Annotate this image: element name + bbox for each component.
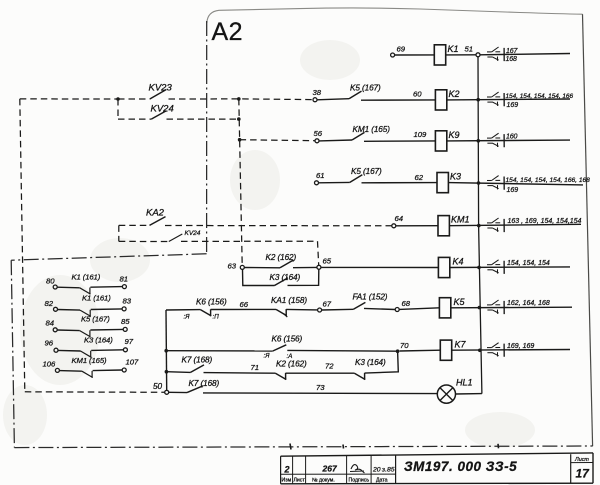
svg-text:K2: K2 [449, 89, 460, 99]
contact refs row K5 [487, 304, 492, 306]
svg-text:K5 (167): K5 (167) [350, 84, 381, 93]
lamp HL1 [437, 385, 455, 403]
relay coil K7 [440, 340, 451, 360]
svg-text:154, 154, 154: 154, 154, 154 [507, 260, 550, 267]
contact refs row K4 [487, 264, 492, 266]
relay coil K2 [435, 90, 446, 110]
wire dashed lower branch to corner [181, 240, 318, 242]
svg-text:63: 63 [228, 262, 237, 271]
svg-text:160: 160 [506, 133, 517, 140]
svg-text:K3 (164): K3 (164) [270, 273, 301, 282]
svg-text:K7 (168): K7 (168) [189, 379, 220, 388]
contact K5(167) spare 84-85 [53, 328, 57, 332]
relay coil K4 [438, 257, 449, 277]
relay coil KM1 [438, 216, 449, 236]
svg-text:84: 84 [46, 319, 55, 328]
junction node 70 [396, 349, 400, 353]
border tick marks [290, 444, 499, 450]
svg-text:K5 (167): K5 (167) [81, 315, 110, 324]
svg-text:K7 (168): K7 (168) [182, 356, 213, 365]
svg-text:2: 2 [284, 465, 290, 475]
wire dashed left bracket of KA2 pair [118, 225, 120, 241]
contact FA1 (152) [322, 308, 354, 311]
right page border [583, 14, 593, 446]
wire coil K4 to bus [450, 266, 570, 269]
svg-text:K2 (162): K2 (162) [266, 253, 297, 262]
wire dashed vertical distribution bus x241 [239, 99, 242, 265]
relay coil K3 [437, 173, 448, 193]
contact KM1 (165) row K9 [319, 139, 352, 142]
wire dashed KA2 to terminal 64 [165, 225, 392, 227]
svg-text:K3 (164): K3 (164) [84, 336, 113, 345]
svg-text:163 , 169, 154, 154,154: 163 , 169, 154, 154,154 [508, 218, 582, 225]
svg-text:K5: K5 [454, 297, 466, 307]
svg-text:85: 85 [121, 317, 130, 326]
relay coil K1 [434, 45, 445, 65]
svg-text:67: 67 [323, 300, 332, 309]
wire dashed bottom edge to node 50 [25, 391, 165, 394]
wire dashed top edge to KV23 [20, 98, 118, 100]
title signature [350, 465, 365, 473]
svg-text:KM1: KM1 [451, 215, 470, 225]
svg-text:KA2: KA2 [146, 208, 165, 219]
contact refs row K7 [487, 347, 492, 349]
svg-text:169, 169: 169, 169 [507, 343, 534, 350]
svg-text:81: 81 [120, 275, 129, 284]
contact refs row K1 [487, 51, 492, 53]
svg-text:73: 73 [316, 383, 325, 392]
A2 module boundary chain line (left vertical) [11, 260, 14, 447]
svg-text:20 з.85: 20 з.85 [372, 467, 395, 474]
wire coil K2 to bus [447, 98, 570, 101]
contact refs row K2 [487, 96, 492, 98]
wire coil K3 to bus [448, 183, 583, 185]
svg-text:68: 68 [402, 299, 411, 308]
junction left rail row K7-71 [165, 370, 169, 374]
node junction KV24 bus [237, 117, 241, 121]
svg-text:60: 60 [413, 90, 422, 99]
wire coil K7 to bus [452, 349, 570, 352]
wire dashed left vertical of supply loop [20, 99, 25, 392]
wire coil KM1 to bus [449, 224, 581, 225]
contact K2 (162) parallel upper [244, 267, 280, 269]
svg-text:KM1 (165): KM1 (165) [72, 356, 108, 365]
contact K5 (167) row K3 [319, 181, 350, 183]
svg-text:K3: K3 [450, 172, 461, 182]
svg-text:62: 62 [415, 173, 424, 182]
svg-text:65: 65 [323, 257, 332, 266]
A2 module boundary chain line (upper horizontal) [11, 254, 206, 260]
contact K7 (168) bottom row [169, 391, 187, 393]
wire dashed vertical drop to node 65 [318, 241, 319, 265]
wire to lamp HL1 [203, 392, 437, 395]
wire lamp to bus corner [456, 393, 482, 395]
junction bus row K7 [478, 349, 482, 353]
wire K6 to node 70 [287, 349, 397, 352]
svg-text:50: 50 [153, 382, 162, 391]
wire contact to coil K3 [362, 182, 438, 184]
wire dashed lower branch to KV24 contact [119, 240, 169, 242]
svg-text:107: 107 [126, 358, 140, 367]
svg-text:154, 154, 154, 154, 166: 154, 154, 154, 154, 166 [506, 93, 574, 100]
junction bus row KM1 [477, 224, 481, 228]
wire right supply bus vertical [478, 57, 482, 394]
wire FA1 to terminal 68 [364, 308, 395, 309]
svg-text:K1 (161): K1 (161) [72, 273, 101, 282]
wire terminal 68 to coil K5 [399, 308, 439, 310]
svg-text:83: 83 [123, 297, 132, 306]
wire K3 to node 70 riser [365, 351, 399, 373]
svg-text:A2: A2 [212, 18, 244, 46]
svg-text:ЗМ197. 000 ЗЗ-5: ЗМ197. 000 ЗЗ-5 [404, 459, 517, 474]
svg-text:KM1 (165): KM1 (165) [353, 125, 391, 134]
svg-text:K4: K4 [453, 257, 464, 267]
svg-text::П: :П [213, 314, 220, 321]
contact K6 (156) with connector pins [166, 309, 200, 311]
contact K6 (156) row K7 [166, 350, 273, 352]
paper torn top edge [207, 8, 583, 23]
svg-text:72: 72 [325, 362, 334, 371]
svg-text:56: 56 [314, 129, 323, 138]
svg-text:K1 (161): K1 (161) [82, 294, 111, 303]
svg-text:KA1 (158): KA1 (158) [271, 296, 307, 305]
svg-text:K2 (162): K2 (162) [276, 359, 307, 368]
wire K6 to KA1 [211, 308, 276, 310]
wire contact to coil K2 [361, 99, 435, 101]
svg-text:Лист: Лист [294, 478, 306, 484]
node junction on KV23 line [116, 97, 120, 101]
wire dashed KV23 to junction [169, 98, 239, 100]
terminal 61 [315, 181, 319, 185]
svg-text:71: 71 [251, 363, 260, 372]
svg-text:17: 17 [576, 467, 591, 481]
wire coil K5 to bus [451, 306, 572, 309]
svg-text:106: 106 [43, 360, 57, 369]
svg-text:FA1 (152): FA1 (152) [353, 293, 388, 302]
contact KV24 [118, 118, 151, 120]
svg-text:38: 38 [313, 88, 322, 97]
svg-text:69: 69 [397, 45, 406, 54]
terminal 38 [313, 98, 317, 102]
wire contact to coil K9 [364, 140, 435, 142]
contact refs row K9 [487, 137, 492, 139]
terminal 69 [391, 53, 395, 57]
junction bus row K3 [477, 181, 481, 185]
contact K1(161) spare 82-83 [54, 307, 58, 311]
contact K7 (168) sub-row [166, 371, 190, 374]
svg-text:109: 109 [414, 130, 428, 139]
wire dashed vertical KV23-KV24 [117, 99, 119, 119]
svg-text:61: 61 [316, 171, 325, 180]
A2 module boundary chain line (top vertical) [206, 21, 208, 254]
contact KA1 (158) [276, 309, 287, 315]
wire coil K9 to bus [447, 139, 570, 142]
svg-text:51: 51 [465, 45, 474, 54]
scan smudges [3, 40, 535, 448]
svg-text:154, 154, 154, 154, 166, 168: 154, 154, 154, 154, 166, 168 [506, 177, 591, 184]
contact K3(164) spare 96-97 [54, 348, 58, 352]
svg-text:64: 64 [395, 214, 404, 223]
relay coil K5 [439, 298, 450, 318]
wire left rail vertical [165, 310, 168, 390]
svg-text:169: 169 [507, 102, 519, 109]
terminal node 65 [317, 265, 321, 269]
svg-text:80: 80 [46, 277, 55, 286]
svg-text:Лист: Лист [574, 457, 589, 463]
junction left rail row K6-A [164, 349, 168, 353]
A2 module boundary chain line (bottom horizontal) [14, 446, 592, 448]
svg-text:K7: K7 [455, 340, 467, 350]
svg-text:K1: K1 [448, 44, 459, 54]
wire terminal 64 to coil KM1 [396, 225, 438, 227]
terminal node 50 [165, 390, 169, 394]
svg-text:KV24: KV24 [151, 104, 174, 115]
svg-text:K3 (164): K3 (164) [355, 358, 386, 367]
svg-text:82: 82 [45, 299, 54, 308]
contact K3 (164) parallel lower branch [243, 269, 275, 285]
node junction row K9 feed [238, 138, 242, 142]
terminal 68 [395, 308, 399, 312]
contact K3 (164) sub-row [354, 373, 365, 379]
wire node 51 to right refs [480, 54, 570, 55]
svg-text:169: 169 [507, 187, 519, 194]
wire K7 to K2 contact [204, 372, 276, 375]
relay coil K9 [435, 131, 446, 151]
wire dashed junction to terminal 38 [242, 98, 313, 101]
wire to node 65 [293, 266, 317, 268]
terminal node 51 [476, 53, 480, 57]
svg-text:K5 (167): K5 (167) [351, 167, 382, 176]
contact K5 (167) row K2 [317, 99, 349, 100]
svg-text::Я: :Я [264, 353, 271, 360]
junction bus row K2 [476, 98, 480, 102]
terminal 64 [392, 224, 396, 228]
svg-text:KV24: KV24 [185, 230, 201, 237]
terminal node 63 [240, 265, 244, 269]
svg-text:KV23: KV23 [149, 83, 173, 94]
wire coil K1 to node 51 [446, 54, 476, 56]
wire node 65 to coil K4 [321, 266, 438, 268]
svg-text:№ докум.: № докум. [312, 478, 335, 484]
contact KM1(165) spare 106-107 [55, 368, 59, 372]
svg-text:267: 267 [322, 464, 338, 474]
contact K2 (162) sub-row [275, 373, 286, 379]
junction bus row K5 [478, 306, 482, 310]
wire node 70 to coil K7 [400, 349, 441, 352]
drawing number title block [281, 453, 593, 484]
svg-text:K9: K9 [449, 130, 460, 140]
contact K1(161) spare 80-81 [53, 285, 57, 289]
contact KV23 [118, 98, 150, 100]
wire dashed junction to terminal 56 [240, 140, 315, 141]
contact refs row K3 [487, 180, 492, 182]
svg-text:K6 (156): K6 (156) [272, 335, 303, 344]
svg-text:168: 168 [506, 56, 517, 63]
contact refs row KM1 [487, 222, 492, 224]
svg-text:Подпись: Подпись [349, 478, 370, 484]
svg-text:66: 66 [240, 300, 249, 309]
wire K2 to K3 contact [286, 372, 355, 374]
svg-text:HL1: HL1 [456, 378, 473, 388]
svg-text:96: 96 [45, 339, 54, 348]
svg-text:K6 (156): K6 (156) [196, 297, 227, 306]
svg-text:Дата: Дата [376, 478, 388, 484]
terminal 67 [318, 308, 322, 312]
wire KA1 to terminal 67 [286, 308, 317, 311]
svg-text:162, 164, 168: 162, 164, 168 [507, 300, 550, 307]
node junction KV23 bus [237, 97, 241, 101]
svg-text:167: 167 [506, 48, 518, 55]
svg-text:70: 70 [400, 341, 409, 350]
junction bus row K4 [477, 266, 481, 270]
terminal 56 [315, 139, 319, 143]
contact KA2 [119, 224, 150, 226]
wire dashed KV24 to junction [167, 118, 239, 120]
contact KV24 (lower branch) [169, 234, 183, 242]
svg-text::Я: :Я [184, 314, 191, 321]
svg-text:Изм: Изм [282, 478, 292, 484]
wire terminal 69 to coil K1 [395, 54, 435, 56]
svg-text:97: 97 [125, 337, 134, 346]
junction bus row K9 [477, 139, 481, 143]
